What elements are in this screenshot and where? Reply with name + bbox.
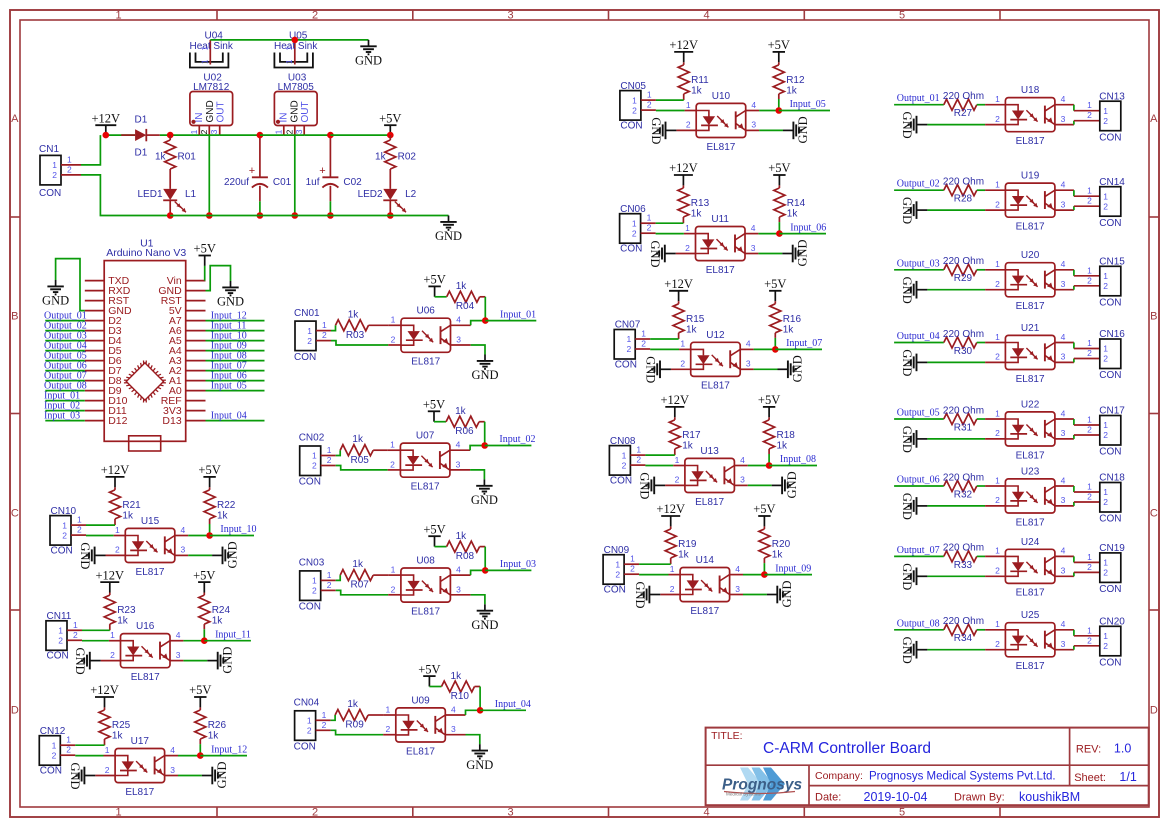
wire +5V rail <box>330 134 390 136</box>
wire U06 pin3 to ground <box>471 345 485 355</box>
optocoupler U06 EL817 <box>388 306 470 368</box>
resistor R20 1k <box>759 526 791 563</box>
svg-text:2: 2 <box>1087 562 1092 572</box>
heat sink U05 <box>274 30 318 67</box>
svg-text:1: 1 <box>1087 265 1092 275</box>
resistor R09 1k <box>335 699 383 731</box>
svg-text:2: 2 <box>77 525 82 535</box>
svg-text:CN19: CN19 <box>1099 543 1125 554</box>
svg-text:+5V: +5V <box>423 398 445 412</box>
svg-text:U16: U16 <box>136 621 155 632</box>
svg-text:3: 3 <box>751 120 756 130</box>
svg-text:2: 2 <box>52 750 57 760</box>
svg-text:GND: GND <box>471 618 498 632</box>
power +5V R14 <box>768 161 790 185</box>
net Input_04 label wire <box>480 699 531 710</box>
svg-text:1: 1 <box>58 626 63 636</box>
svg-text:IN: IN <box>279 113 290 123</box>
svg-text:1: 1 <box>105 745 110 755</box>
svg-text:U20: U20 <box>1021 250 1040 261</box>
svg-text:U08: U08 <box>416 556 435 567</box>
power +5V R12 <box>768 38 790 62</box>
svg-text:CN17: CN17 <box>1099 406 1125 417</box>
svg-text:EL817: EL817 <box>1016 661 1045 672</box>
svg-text:1: 1 <box>66 735 71 745</box>
svg-text:1k: 1k <box>347 699 359 710</box>
power +5V U1 Vin <box>194 242 216 281</box>
svg-text:GND: GND <box>215 761 229 788</box>
svg-text:CN20: CN20 <box>1099 617 1125 628</box>
svg-text:Company:: Company: <box>815 770 863 782</box>
svg-text:+12V: +12V <box>92 111 121 125</box>
connector CN14 <box>1087 177 1125 229</box>
power +12V <box>92 111 121 135</box>
svg-text:GND: GND <box>796 116 810 143</box>
wire CN12 pin1 to R25 <box>75 744 104 746</box>
svg-text:4: 4 <box>170 745 175 755</box>
svg-text:2: 2 <box>626 344 631 354</box>
power +5V R26 <box>189 683 211 707</box>
junction net Input_06 <box>776 230 783 237</box>
resistor R13 1k <box>678 185 710 223</box>
ground U12 pin2 <box>643 356 671 383</box>
junction net Input_05 <box>776 107 783 114</box>
svg-text:R01: R01 <box>178 152 197 163</box>
ground U09 <box>466 744 493 772</box>
svg-text:R03: R03 <box>346 330 365 341</box>
svg-text:2: 2 <box>995 495 1000 505</box>
svg-text:Input_02: Input_02 <box>499 434 535 445</box>
svg-text:3: 3 <box>746 359 751 369</box>
svg-text:2: 2 <box>1103 641 1108 651</box>
svg-text:Input_01: Input_01 <box>500 309 536 320</box>
ground U12 pin3 <box>778 355 805 382</box>
svg-text:Sheet:: Sheet: <box>1074 772 1106 784</box>
svg-text:EL817: EL817 <box>411 482 440 493</box>
svg-text:+12V: +12V <box>661 393 690 407</box>
svg-text:GND: GND <box>900 493 914 520</box>
svg-text:EL817: EL817 <box>706 142 735 153</box>
resistor R08 1k <box>435 531 486 562</box>
svg-text:EL817: EL817 <box>411 606 440 617</box>
svg-text:4: 4 <box>456 315 461 325</box>
svg-text:1k: 1k <box>691 86 703 97</box>
resistor R04 1k <box>435 281 486 312</box>
svg-text:1: 1 <box>115 9 121 21</box>
svg-text:CON: CON <box>40 766 62 777</box>
wire CN06 pin1 to R13 <box>656 222 684 224</box>
svg-text:U17: U17 <box>131 736 150 747</box>
wire R10 to net Input_04 <box>479 687 481 711</box>
svg-text:Input_12: Input_12 <box>211 744 247 755</box>
svg-text:CON: CON <box>620 244 642 255</box>
svg-text:REV:: REV: <box>1076 744 1101 756</box>
svg-text:Input_09: Input_09 <box>775 563 811 574</box>
svg-text:3: 3 <box>209 129 219 134</box>
svg-text:GND: GND <box>633 581 647 608</box>
junction net Input_12 <box>197 752 204 759</box>
connector CN11 <box>46 611 82 662</box>
company text <box>815 770 1056 783</box>
wire +12V rail <box>106 134 200 136</box>
LED L1 LED1 <box>137 189 196 216</box>
ground U1 right GND <box>217 281 244 309</box>
svg-text:CON: CON <box>51 546 73 557</box>
svg-text:U12: U12 <box>706 330 725 341</box>
svg-text:3: 3 <box>181 545 186 555</box>
svg-text:1k: 1k <box>456 531 468 542</box>
connector CN19 <box>1087 543 1125 595</box>
svg-text:U11: U11 <box>711 214 729 225</box>
optocoupler U08 EL817 <box>388 556 470 618</box>
wire GND rail bottom <box>170 215 448 217</box>
svg-text:TITLE:: TITLE: <box>711 730 743 742</box>
IC U1 Arduino Nano V3 <box>85 237 206 451</box>
svg-text:+5V: +5V <box>194 242 216 256</box>
svg-text:2: 2 <box>312 9 318 21</box>
connector CN05 <box>620 81 656 132</box>
wire U11 pin4 to net Input_06 <box>758 233 779 235</box>
svg-text:2: 2 <box>66 745 71 755</box>
wire heat sink ground net <box>210 39 368 41</box>
connector CN07 <box>614 320 650 371</box>
wire U02 OUT rail <box>199 134 260 136</box>
net Input_02 U1 left wire <box>44 401 85 412</box>
net Output_02 label wire <box>894 179 944 191</box>
svg-text:2: 2 <box>312 461 317 471</box>
svg-text:2: 2 <box>647 100 652 110</box>
svg-text:CON: CON <box>299 477 321 488</box>
svg-text:2: 2 <box>995 352 1000 362</box>
wire U11 pin3 to ground <box>758 253 782 255</box>
svg-text:4: 4 <box>456 440 461 450</box>
svg-text:1k: 1k <box>686 324 698 335</box>
wire U10 pin4 to net Input_05 <box>759 110 779 112</box>
svg-text:U18: U18 <box>1021 85 1040 96</box>
svg-text:R23: R23 <box>117 605 136 616</box>
power +12V R15 <box>664 277 693 301</box>
svg-text:2: 2 <box>680 359 685 369</box>
svg-text:+12V: +12V <box>664 277 693 291</box>
svg-text:L1: L1 <box>185 189 197 200</box>
svg-text:220 Ohm: 220 Ohm <box>943 472 984 483</box>
svg-text:Input_05: Input_05 <box>211 381 247 392</box>
svg-text:R16: R16 <box>783 314 802 325</box>
svg-text:+5V: +5V <box>189 683 211 697</box>
svg-text:EL817: EL817 <box>1016 450 1045 461</box>
svg-text:GND: GND <box>471 368 498 382</box>
svg-text:1: 1 <box>115 525 120 535</box>
junction net Input_08 <box>766 462 773 469</box>
svg-text:GND: GND <box>780 580 794 607</box>
junction C02 top <box>327 132 334 139</box>
svg-text:1: 1 <box>327 445 332 455</box>
ground U07 <box>471 479 498 507</box>
svg-text:1: 1 <box>622 450 627 460</box>
svg-text:1: 1 <box>630 554 635 564</box>
svg-text:Input_07: Input_07 <box>786 338 822 349</box>
wire CN01 pin2 to U06 pin2 <box>331 341 388 345</box>
svg-text:R04: R04 <box>456 301 475 312</box>
svg-text:R25: R25 <box>112 720 131 731</box>
svg-text:EL817: EL817 <box>131 672 160 683</box>
svg-text:R07: R07 <box>351 580 370 591</box>
svg-text:CON: CON <box>1099 298 1121 309</box>
wire R20 to net Input_09 <box>763 563 765 575</box>
sheet text <box>1074 770 1137 784</box>
svg-text:4: 4 <box>703 806 709 818</box>
ground U17 pin2 <box>68 762 96 789</box>
svg-text:CN06: CN06 <box>620 204 646 215</box>
svg-text:GND: GND <box>900 426 914 453</box>
svg-text:1: 1 <box>626 334 631 344</box>
ground U25 pin2 <box>900 637 985 664</box>
svg-text:1/1: 1/1 <box>1119 770 1136 784</box>
svg-text:3: 3 <box>1061 114 1066 124</box>
svg-text:3: 3 <box>176 650 181 660</box>
svg-text:Output_08: Output_08 <box>897 618 940 629</box>
resistor R31 220 Ohm <box>943 405 985 433</box>
svg-text:A: A <box>11 113 19 125</box>
svg-text:2: 2 <box>199 129 209 134</box>
svg-text:1: 1 <box>391 564 396 574</box>
svg-text:2: 2 <box>390 459 395 469</box>
svg-text:R27: R27 <box>954 108 973 119</box>
wire CN05 pin2 to U10 pin1 <box>656 110 685 112</box>
svg-text:R17: R17 <box>682 430 701 441</box>
svg-text:1: 1 <box>1103 344 1108 354</box>
optocoupler U15 EL817 <box>106 516 189 578</box>
svg-text:CN12: CN12 <box>40 726 66 737</box>
junction net Input_01 <box>482 317 489 324</box>
svg-text:R13: R13 <box>691 198 710 209</box>
svg-text:Output_04: Output_04 <box>897 331 940 342</box>
svg-text:1: 1 <box>285 59 294 64</box>
net Output_06 U1 left wire <box>44 361 87 372</box>
svg-text:EL817: EL817 <box>701 381 730 392</box>
wire CN04 pin1 to R09 <box>331 715 336 720</box>
svg-text:1: 1 <box>1087 186 1092 196</box>
optocoupler U16 EL817 <box>101 621 184 683</box>
svg-text:D1: D1 <box>135 148 148 159</box>
wire R22 to net Input_10 <box>209 524 211 536</box>
power +5V R16 <box>764 277 786 301</box>
svg-text:CN16: CN16 <box>1099 329 1125 340</box>
ground U06 <box>471 355 498 383</box>
svg-text:2: 2 <box>632 228 637 238</box>
svg-text:3: 3 <box>507 9 513 21</box>
svg-text:GND: GND <box>205 100 216 122</box>
resistor R16 1k <box>770 301 802 338</box>
junction U03 GND rail <box>292 212 299 219</box>
svg-text:1: 1 <box>322 320 327 330</box>
wire U18 pin4 to CN13 pin1 <box>1074 105 1100 111</box>
wire R06 to net Input_02 <box>484 422 486 446</box>
svg-text:1: 1 <box>995 259 1000 269</box>
wire U1 GND right <box>206 266 231 291</box>
svg-text:Drawn By:: Drawn By: <box>954 792 1005 804</box>
net Output_01 label wire <box>894 93 944 105</box>
svg-text:3: 3 <box>170 765 175 775</box>
svg-text:4: 4 <box>735 564 740 574</box>
svg-text:EL817: EL817 <box>1016 374 1045 385</box>
svg-text:1: 1 <box>390 440 395 450</box>
svg-text:4: 4 <box>1061 259 1066 269</box>
ground U10 pin3 <box>783 116 810 143</box>
svg-text:R02: R02 <box>398 152 417 163</box>
svg-text:Output_05: Output_05 <box>897 408 940 419</box>
wire U16 pin3 to ground <box>183 660 207 662</box>
svg-text:2: 2 <box>641 339 646 349</box>
power +12V R19 <box>656 502 685 526</box>
resistor R28 220 Ohm <box>943 177 985 205</box>
heat sink U04 <box>190 30 234 67</box>
wire CN11 pin1 to R23 <box>82 629 110 631</box>
svg-text:2: 2 <box>312 586 317 596</box>
net Input_07 U1 right wire <box>206 361 265 372</box>
wire R12 to net Input_05 <box>778 99 780 111</box>
resistor R34 220 Ohm <box>943 616 985 644</box>
junction C01 bottom <box>257 212 264 219</box>
optocoupler U11 EL817 <box>676 214 759 276</box>
power +5V R10 <box>418 662 440 686</box>
svg-text:GND: GND <box>900 277 914 304</box>
svg-text:CON: CON <box>610 476 632 487</box>
svg-text:+5V: +5V <box>193 568 215 582</box>
wire U19 pin4 to CN14 pin1 <box>1074 190 1100 196</box>
svg-text:2: 2 <box>636 455 641 465</box>
svg-text:CON: CON <box>1099 370 1121 381</box>
resistor R29 220 Ohm <box>943 256 985 284</box>
svg-text:U10: U10 <box>712 91 731 102</box>
resistor R21 1k <box>110 487 142 525</box>
resistor R05 1k <box>340 434 388 466</box>
power +5V R22 <box>198 463 220 487</box>
svg-text:OUT: OUT <box>215 101 226 122</box>
svg-text:Input_08: Input_08 <box>780 454 816 465</box>
svg-text:2: 2 <box>685 243 690 253</box>
svg-text:CN09: CN09 <box>604 545 630 556</box>
svg-text:GND: GND <box>785 471 799 498</box>
svg-text:1k: 1k <box>787 209 799 220</box>
svg-text:Medical Systems: Medical Systems <box>726 791 761 796</box>
net Input_09 U1 right wire <box>206 341 265 352</box>
wire U25 pin4 to CN20 pin1 <box>1074 630 1100 636</box>
svg-text:+12V: +12V <box>669 161 698 175</box>
svg-text:CON: CON <box>620 121 642 132</box>
svg-text:3: 3 <box>456 335 461 345</box>
svg-text:2: 2 <box>312 806 318 818</box>
optocoupler U22 EL817 <box>985 399 1074 461</box>
svg-text:CN14: CN14 <box>1099 177 1125 188</box>
svg-text:R34: R34 <box>954 633 973 644</box>
wire U24 pin3 to CN19 pin2 <box>1074 572 1100 576</box>
svg-text:1: 1 <box>312 576 317 586</box>
svg-text:GND: GND <box>42 294 69 308</box>
svg-text:GND: GND <box>435 229 462 243</box>
net Input_08 U1 right wire <box>206 351 265 362</box>
net Input_03 label wire <box>485 559 536 570</box>
svg-text:+12V: +12V <box>101 463 130 477</box>
svg-text:Output_03: Output_03 <box>897 258 940 269</box>
connector CN1 <box>39 144 81 199</box>
svg-text:U07: U07 <box>416 431 435 442</box>
svg-text:+5V: +5V <box>758 393 780 407</box>
capacitor C01 220uf <box>224 135 292 215</box>
svg-text:1: 1 <box>52 160 57 170</box>
svg-text:2: 2 <box>1087 275 1092 285</box>
wire R16 to net Input_07 <box>774 338 776 350</box>
connector CN18 <box>1087 473 1125 525</box>
wire U03 rails <box>260 134 331 136</box>
svg-text:D1: D1 <box>135 115 148 126</box>
svg-text:1k: 1k <box>348 309 360 320</box>
svg-text:+5V: +5V <box>379 111 401 125</box>
svg-text:+: + <box>249 165 255 177</box>
svg-text:U25: U25 <box>1021 610 1040 621</box>
svg-text:CON: CON <box>294 352 316 363</box>
svg-text:4: 4 <box>1061 180 1066 190</box>
svg-text:Output_07: Output_07 <box>897 545 940 556</box>
net Input_06 U1 right wire <box>206 371 265 382</box>
svg-text:2: 2 <box>995 199 1000 209</box>
svg-text:2: 2 <box>62 530 67 540</box>
svg-text:GND: GND <box>791 355 805 382</box>
svg-text:1: 1 <box>995 332 1000 342</box>
svg-text:CON: CON <box>615 359 637 370</box>
svg-text:GND: GND <box>355 54 382 68</box>
svg-text:+5V: +5V <box>418 662 440 676</box>
svg-text:CN08: CN08 <box>610 436 636 447</box>
svg-text:2: 2 <box>995 279 1000 289</box>
svg-text:1: 1 <box>1087 100 1092 110</box>
power +12V R17 <box>661 393 690 417</box>
svg-text:1: 1 <box>675 455 680 465</box>
wire U14 pin3 to ground <box>743 594 767 596</box>
junction net Input_11 <box>201 637 208 644</box>
frame row labels <box>11 113 1158 717</box>
svg-text:CON: CON <box>1099 447 1121 458</box>
wire U15 pin4 to net Input_10 <box>188 535 209 537</box>
svg-text:R32: R32 <box>954 489 973 500</box>
svg-text:1: 1 <box>285 46 294 51</box>
svg-text:L2: L2 <box>405 189 417 200</box>
svg-text:1: 1 <box>995 408 1000 418</box>
junction C02 bottom <box>327 212 334 219</box>
svg-text:2: 2 <box>322 720 327 730</box>
svg-text:LM7805: LM7805 <box>278 82 315 93</box>
svg-text:2: 2 <box>110 650 115 660</box>
svg-text:+5V: +5V <box>198 463 220 477</box>
svg-text:1: 1 <box>322 710 327 720</box>
svg-text:1k: 1k <box>678 550 690 561</box>
wire CN1 pin1 to +12V rail <box>81 135 100 165</box>
resistor R17 1k <box>669 417 701 455</box>
wire U23 pin4 to CN18 pin1 <box>1074 486 1100 492</box>
svg-text:1: 1 <box>1087 552 1092 562</box>
svg-text:CN15: CN15 <box>1099 257 1125 268</box>
svg-text:1: 1 <box>115 806 121 818</box>
rev text <box>1076 742 1131 756</box>
svg-text:1: 1 <box>647 90 652 100</box>
ground U15 pin2 <box>78 542 106 569</box>
net Input_12 label wire <box>200 744 247 755</box>
svg-text:+12V: +12V <box>96 568 125 582</box>
svg-text:5: 5 <box>899 9 905 21</box>
svg-text:4: 4 <box>1061 408 1066 418</box>
optocoupler U13 EL817 <box>665 446 748 508</box>
power +5V R08 <box>423 522 445 546</box>
